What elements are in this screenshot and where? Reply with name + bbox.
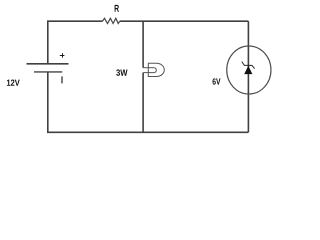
label R [115,5,119,12]
lamp filament top lead [143,67,154,69]
zener D1 cathode bar with bent ends [242,62,255,69]
wire middle vertical lower [142,73,144,133]
label 3W [116,69,127,75]
battery B1 positive plate [27,63,69,65]
label 6V [212,78,220,84]
label 12V [7,80,20,86]
wire bottom [47,131,248,133]
wire top left segment [47,20,103,22]
zener D1 envelope circle [227,46,271,94]
battery minus mark [61,76,63,83]
battery plus sign [60,53,65,57]
lamp filament loop [154,68,156,73]
wire left vertical lower [47,72,49,132]
wire top right segment [120,20,249,22]
wire middle vertical upper [142,21,144,67]
zener D1 triangle [244,66,252,74]
resistor R [103,18,120,23]
wire right vertical [247,21,249,132]
wire left vertical upper [47,21,49,64]
lamp filament bottom lead [143,72,154,74]
battery B1 negative plate [34,71,62,73]
lamp DS1 outer bulb [148,63,164,76]
